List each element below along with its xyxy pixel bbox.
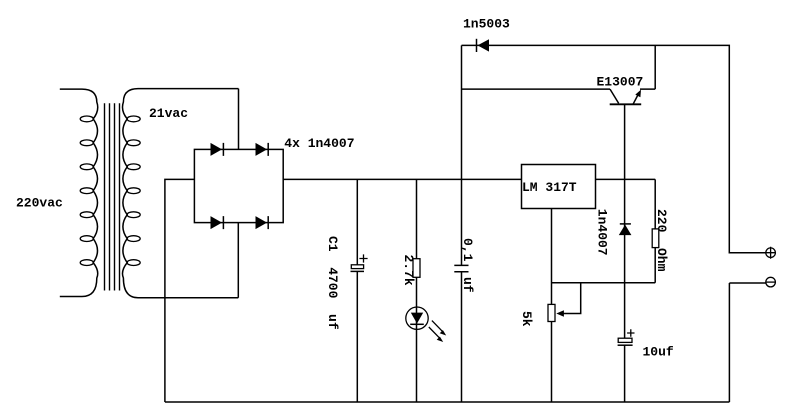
svg-text:1n5003: 1n5003 [463, 17, 510, 32]
svg-text:0,1 uf: 0,1 uf [460, 238, 475, 293]
svg-text:C1 4700 uf: C1 4700 uf [325, 236, 340, 330]
svg-text:4x 1n4007: 4x 1n4007 [284, 136, 354, 151]
svg-text:220 Ohm: 220 Ohm [654, 209, 669, 272]
svg-text:10uf: 10uf [643, 344, 674, 359]
svg-text:E13007: E13007 [597, 75, 644, 90]
svg-text:5k: 5k [519, 311, 534, 327]
svg-text:1n4007: 1n4007 [595, 209, 610, 256]
svg-text:220vac: 220vac [16, 196, 63, 211]
svg-text:LM 317T: LM 317T [522, 180, 577, 195]
svg-text:2.7k: 2.7k [401, 255, 416, 286]
svg-text:21vac: 21vac [149, 106, 188, 121]
